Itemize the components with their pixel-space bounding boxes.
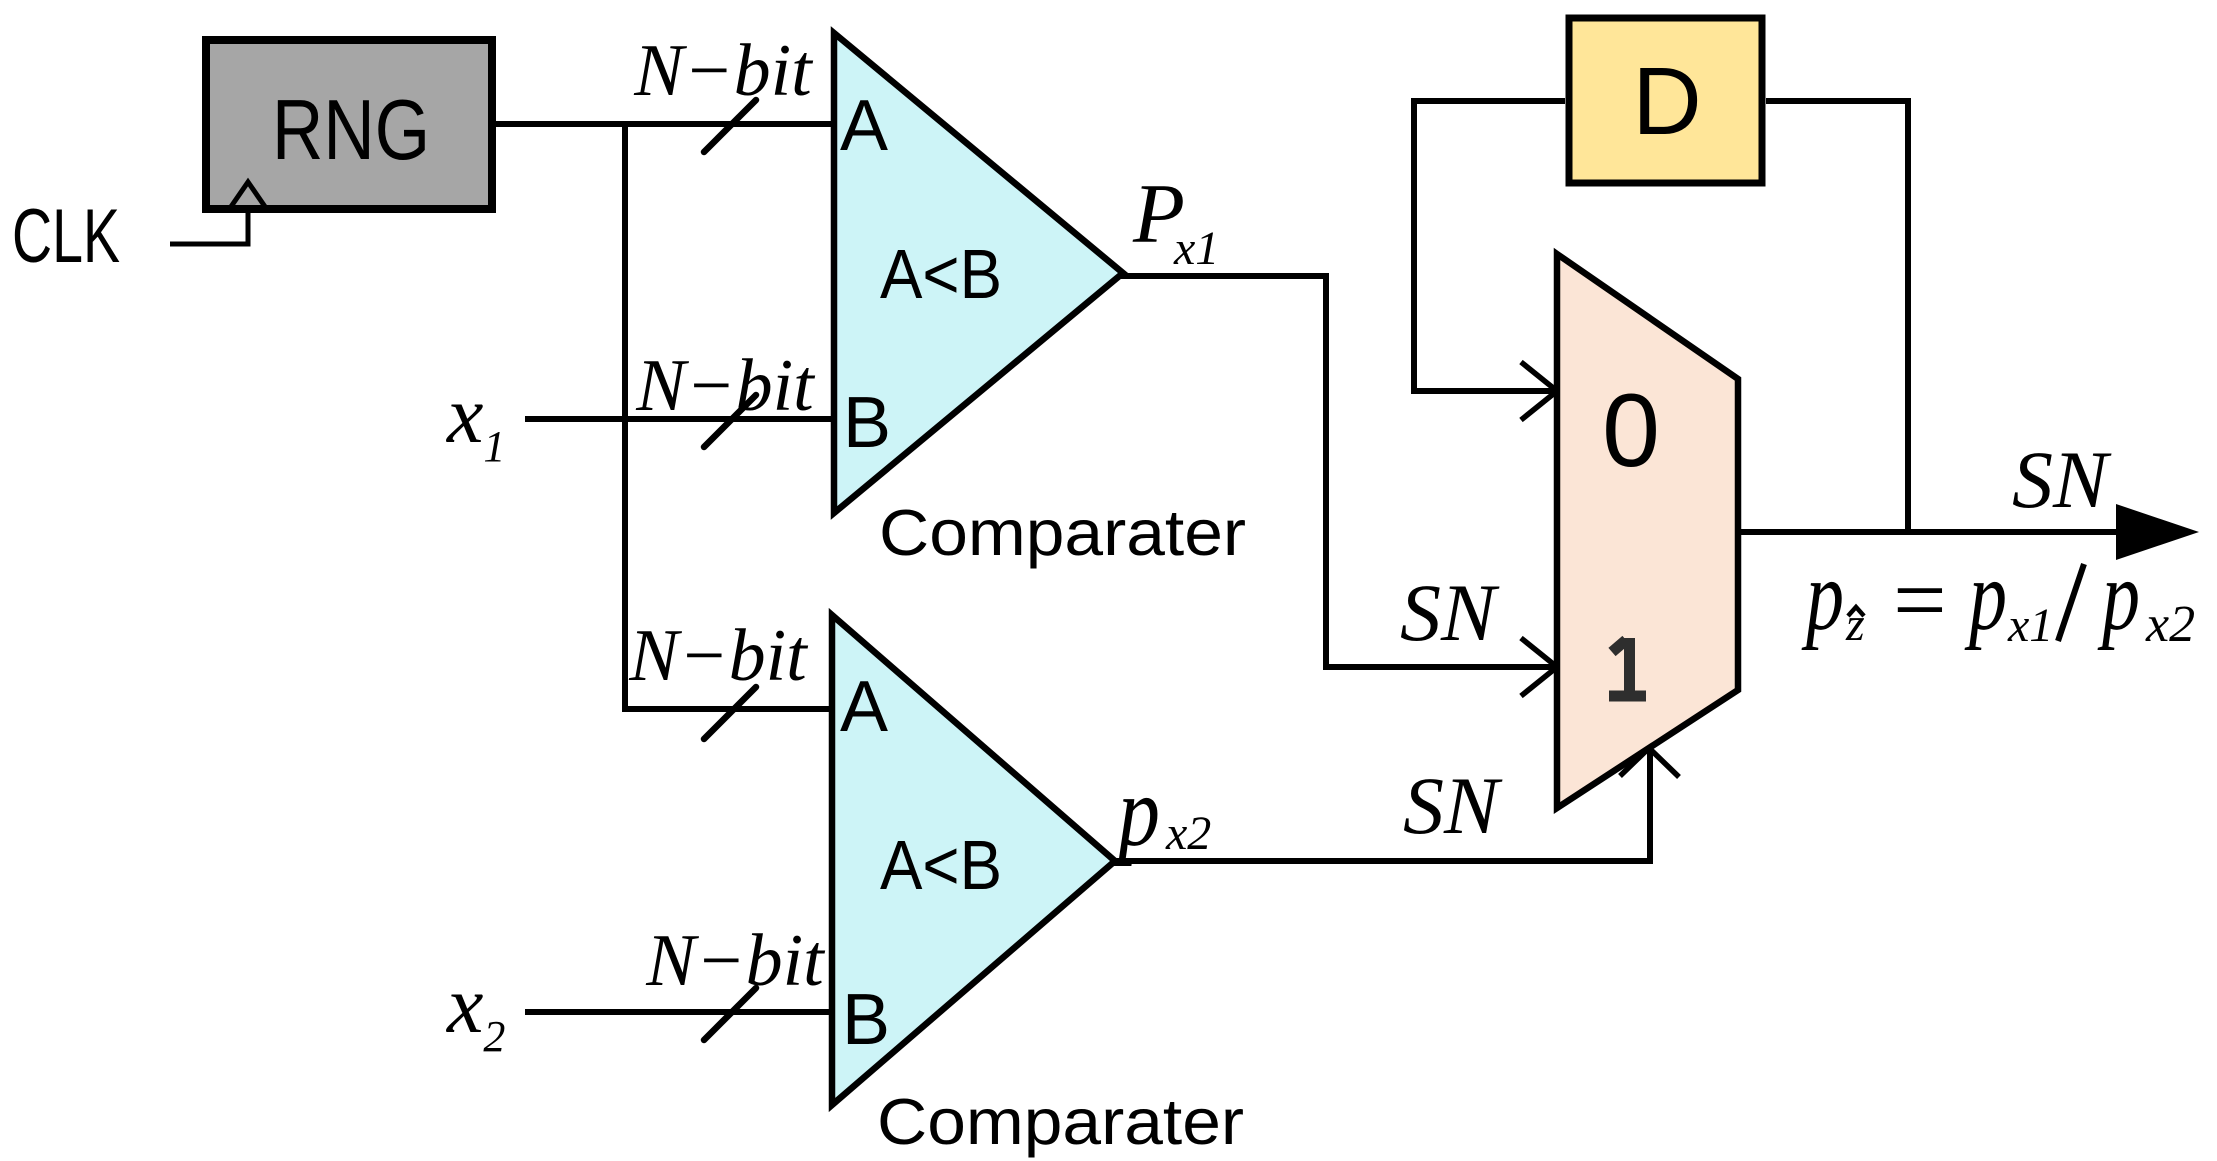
svg-text:p: p bbox=[1801, 540, 1844, 651]
wire D output down to SN output net bbox=[1766, 101, 1908, 534]
svg-text:x2: x2 bbox=[2145, 596, 2195, 653]
svg-text:SN: SN bbox=[1400, 567, 1500, 658]
comparator U3 triangle bbox=[832, 615, 1115, 1105]
svg-text:D: D bbox=[1632, 48, 1701, 155]
wire p_x2 to MUX select bbox=[1115, 748, 1650, 861]
wire x2 to comparator2 B bbox=[525, 1009, 830, 1015]
bus slash on RNG-A1 wire bbox=[704, 100, 756, 152]
arrowhead MUX input 0 bbox=[1521, 362, 1557, 420]
svg-text:N−bit: N−bit bbox=[633, 30, 814, 112]
svg-text:Comparater: Comparater bbox=[879, 496, 1246, 569]
svg-text:N−bit: N−bit bbox=[635, 345, 816, 427]
RNG box U1 bbox=[206, 40, 492, 209]
svg-text:0: 0 bbox=[1602, 373, 1660, 489]
bus slash on x1 wire bbox=[704, 395, 756, 447]
svg-text:=: = bbox=[1887, 547, 1951, 653]
clock edge symbol on RNG bbox=[228, 182, 268, 211]
MUX input 1 label bbox=[1609, 638, 1646, 696]
svg-text:A<B: A<B bbox=[880, 826, 1002, 904]
svg-text:p: p bbox=[1113, 756, 1160, 867]
wire CLK to RNG bbox=[170, 211, 248, 244]
svg-text:N−bit: N−bit bbox=[628, 615, 809, 697]
wire P_x1 to MUX input 1 bbox=[1121, 276, 1554, 667]
wire branch down to comparator2 A bbox=[625, 124, 830, 709]
svg-text:SN: SN bbox=[1403, 760, 1503, 851]
svg-text:p: p bbox=[1964, 540, 2007, 651]
svg-text:CLK: CLK bbox=[12, 194, 120, 279]
svg-text:p: p bbox=[2097, 540, 2140, 651]
D flip-flop U4 bbox=[1569, 18, 1762, 183]
svg-text:N−bit: N−bit bbox=[645, 920, 826, 1002]
svg-text:SN: SN bbox=[2012, 434, 2112, 525]
svg-text:A: A bbox=[840, 667, 888, 747]
svg-text:B: B bbox=[843, 383, 891, 463]
arrowhead MUX input 1 bbox=[1521, 638, 1557, 696]
MUX U5 trapezoid bbox=[1557, 254, 1738, 808]
output arrowhead bbox=[2116, 504, 2199, 560]
svg-text:A<B: A<B bbox=[880, 235, 1002, 313]
bus slash on x2 wire bbox=[704, 988, 756, 1040]
bus slash on RNG-A2 wire bbox=[704, 687, 756, 739]
svg-text:A: A bbox=[840, 86, 888, 166]
SN output wire bbox=[1738, 529, 2150, 535]
svg-text:x1: x1 bbox=[2007, 599, 2053, 652]
arrowhead MUX select bbox=[1620, 748, 1679, 777]
wire RNG output to comparator1 A bbox=[496, 121, 832, 127]
comparator U2 triangle bbox=[834, 33, 1123, 513]
svg-text:Comparater: Comparater bbox=[877, 1085, 1244, 1158]
svg-text:x2: x2 bbox=[1165, 807, 1211, 860]
svg-text:B: B bbox=[842, 980, 890, 1060]
svg-text:x1: x1 bbox=[1173, 222, 1219, 275]
svg-text:RNG: RNG bbox=[272, 83, 430, 178]
wire x1 to comparator1 B bbox=[525, 416, 832, 422]
D flip-flop feedback wire to MUX input 0 bbox=[1414, 101, 1565, 391]
